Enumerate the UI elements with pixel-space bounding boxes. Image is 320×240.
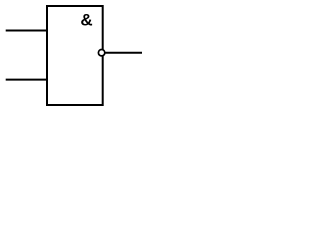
negation bubble — [98, 50, 104, 56]
wire input B — [6, 79, 47, 81]
gate U1 body (AND rectangle) — [47, 6, 103, 105]
svg-text:&: & — [80, 10, 92, 29]
wire output — [105, 52, 142, 54]
wire input A — [6, 30, 47, 32]
